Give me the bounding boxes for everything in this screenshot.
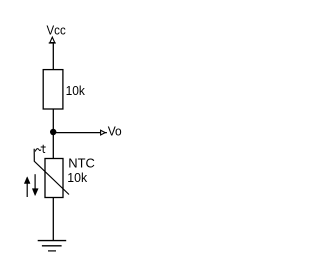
svg-text:NTC: NTC [68,155,95,170]
svg-text:10k: 10k [67,170,87,185]
svg-text:Vcc: Vcc [47,22,67,37]
svg-text:10k: 10k [66,83,86,98]
svg-text:Vo: Vo [108,124,122,139]
